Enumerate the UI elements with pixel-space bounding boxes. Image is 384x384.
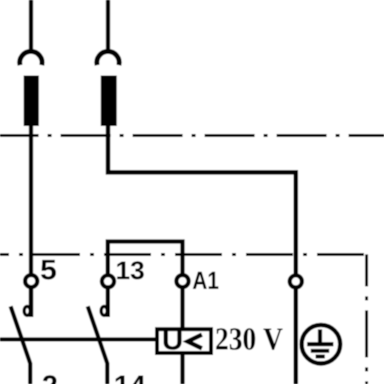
wire from F1 down to contact 5	[29, 126, 33, 317]
earth bar middle	[311, 349, 329, 353]
label 13	[117, 261, 144, 279]
label A1	[193, 272, 219, 289]
connector socket arc (plug-socket) pole 2	[97, 51, 119, 65]
fuse F2 (filled body) pole 2	[101, 76, 117, 127]
contact fixed hook pole 5	[24, 306, 30, 315]
label 2 (cut at bottom)	[43, 375, 57, 384]
connector socket arc (plug-socket) pole 1	[20, 51, 42, 65]
label U<	[164, 330, 182, 350]
wire A1 down to undervoltage release box	[180, 287, 184, 331]
coil feed wire into release box	[0, 337, 158, 341]
contact blade (NO) poles 5-2	[11, 306, 31, 384]
earth bar long	[307, 342, 333, 346]
earth bar short	[316, 355, 325, 359]
wire below release box to bottom edge	[180, 353, 184, 384]
link wire terminal 13 to A1	[108, 242, 183, 279]
earth stem	[318, 329, 322, 343]
wire below terminal 5 to contact hook	[29, 287, 33, 317]
wire below N terminal to bottom	[294, 287, 299, 384]
less-than symbol in release box	[188, 335, 202, 349]
terminal circle A1	[176, 275, 188, 287]
label 230 V	[216, 328, 282, 350]
contact blade (NO) poles 13-14	[88, 306, 108, 384]
wire below terminal 13 to contact hook	[106, 287, 110, 317]
terminal circle N pole	[290, 275, 302, 287]
label 5	[41, 260, 56, 280]
wire L2 drop from top	[106, 0, 110, 50]
terminal circle 13	[102, 275, 114, 287]
boundary dash-dot vertical (right side)	[365, 254, 368, 384]
label 14 (cut at bottom)	[116, 376, 146, 384]
undervoltage release box U<	[157, 329, 211, 353]
wire from F2 right and down to terminal on pole N	[108, 125, 296, 278]
protective earth symbol circle	[302, 325, 341, 364]
boundary dash-dot line (upper)	[0, 134, 384, 137]
terminal circle 5	[25, 275, 37, 287]
boundary dash-dot line (lower) with corner	[0, 253, 367, 256]
fuse F1 (filled body) pole 1	[24, 76, 39, 127]
contact fixed hook pole 13	[101, 306, 107, 315]
wire L1 drop from top	[29, 0, 33, 50]
